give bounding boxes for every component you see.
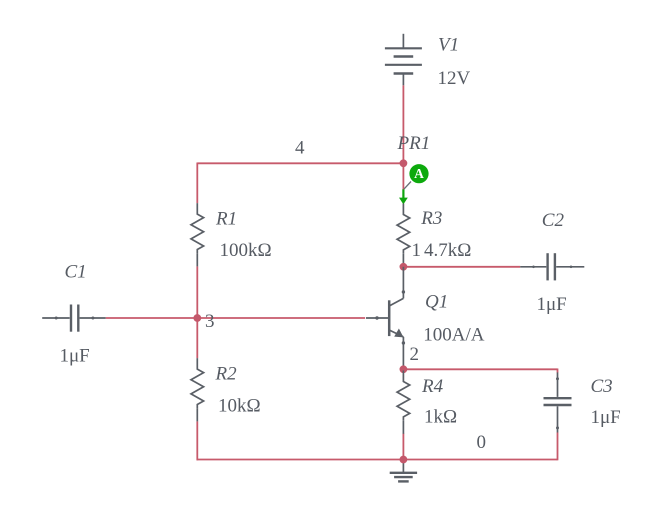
wire: C3 bottom to ground rail <box>557 433 559 461</box>
svg-text:2: 2 <box>410 344 420 365</box>
wire: emitter node 2 to C3 top <box>403 368 557 370</box>
svg-text:R3: R3 <box>420 208 442 229</box>
resistor R2 <box>191 358 204 421</box>
capacitor C3 <box>544 372 572 432</box>
wire: C3 top corner down to C3 symbol <box>557 369 559 373</box>
wire: node 4 horizontal from left column to main vertical <box>197 162 403 164</box>
capacitor C2 <box>520 253 584 280</box>
svg-text:1μF: 1μF <box>60 346 90 367</box>
wire: battery bottom to node 4 junction (vertical, x=403.4) <box>402 85 404 163</box>
svg-text:V1: V1 <box>438 35 459 56</box>
svg-text:0: 0 <box>477 432 487 453</box>
svg-text:R2: R2 <box>215 363 238 384</box>
wire: R2 bottom to ground rail <box>196 421 198 460</box>
resistor R3 <box>397 204 410 267</box>
wire: R4 bottom to ground rail <box>402 434 404 460</box>
svg-text:C2: C2 <box>542 210 565 231</box>
svg-text:12V: 12V <box>438 68 471 89</box>
wire: left column down from node 4 corner to R1 top <box>196 163 198 204</box>
svg-text:4.7kΩ: 4.7kΩ <box>424 240 471 261</box>
probe PR1 leader line <box>404 182 411 190</box>
svg-text:R4: R4 <box>421 376 444 397</box>
ground <box>390 460 417 482</box>
svg-text:100A/A: 100A/A <box>423 325 485 346</box>
svg-text:Q1: Q1 <box>425 292 448 313</box>
svg-text:C1: C1 <box>65 262 87 283</box>
battery V1 <box>385 34 422 86</box>
svg-text:C3: C3 <box>591 376 613 397</box>
wire: ground rail horizontal <box>197 459 558 461</box>
wire: main vertical from node 4 to probe arrow <box>402 163 404 189</box>
resistor R4 <box>397 371 410 434</box>
emitter node 2 junction dot <box>400 365 408 373</box>
wire: R1 bottom to node 3 <box>196 266 198 318</box>
svg-text:A: A <box>414 166 424 181</box>
svg-text:3: 3 <box>205 311 215 332</box>
svg-text:1μF: 1μF <box>537 294 567 315</box>
svg-text:PR1: PR1 <box>397 133 431 154</box>
wire: collector node 1 to C2 <box>403 266 520 268</box>
svg-text:1: 1 <box>412 240 422 261</box>
svg-text:R1: R1 <box>215 209 237 230</box>
capacitor C1 <box>42 305 105 332</box>
svg-text:4: 4 <box>295 138 305 159</box>
probe PR1 circle <box>409 164 428 183</box>
svg-text:1kΩ: 1kΩ <box>424 407 457 428</box>
probe current arrow <box>402 189 404 198</box>
node 4 junction dot <box>400 159 408 167</box>
transistor Q1 <box>366 267 405 370</box>
ground junction dot <box>400 456 408 464</box>
wire: node 3 down to R2 top <box>196 318 198 358</box>
svg-text:100kΩ: 100kΩ <box>220 240 272 261</box>
wire: C1 output to node 3 <box>106 317 198 319</box>
svg-text:1μF: 1μF <box>591 407 621 428</box>
collector node 1 junction dot <box>400 263 408 271</box>
node 3 junction dot <box>193 314 201 322</box>
wire: node 3 to Q1 base <box>197 317 365 319</box>
svg-text:10kΩ: 10kΩ <box>218 396 261 417</box>
resistor R1 <box>191 203 204 266</box>
